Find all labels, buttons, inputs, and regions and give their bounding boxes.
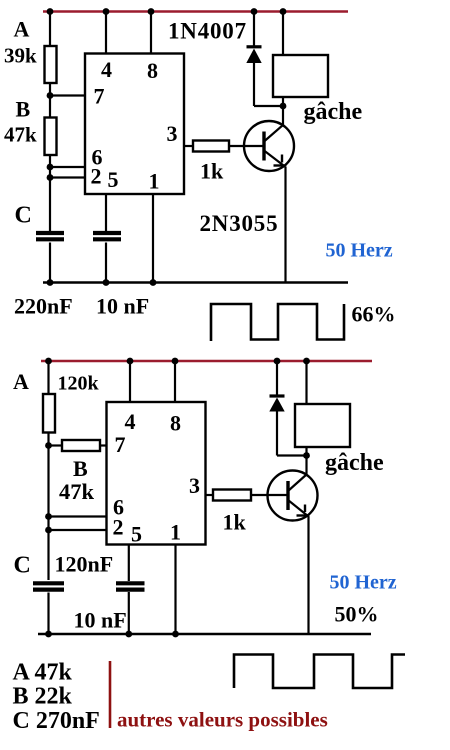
ground node at C4 (125, 631, 132, 638)
ground node at C2 (103, 279, 110, 286)
svg-text:B: B (73, 456, 88, 481)
svg-text:5: 5 (108, 167, 119, 192)
wire emitter to ground rail (284, 167, 286, 283)
svg-text:gâche: gâche (325, 450, 384, 476)
transistor Q1 2N3055 (244, 121, 294, 171)
wire node to pin 6 (49, 515, 108, 517)
ground rail circuit 2 (38, 633, 371, 635)
wire rail to relay K1 (282, 12, 284, 56)
svg-text:10 nF: 10 nF (74, 608, 127, 633)
node pin7 junction (47, 92, 54, 99)
svg-text:120k: 120k (58, 373, 100, 395)
svg-text:3: 3 (167, 121, 178, 146)
wire node to R-B2 (49, 444, 63, 446)
svg-text:1N4007: 1N4007 (168, 19, 247, 44)
svg-text:50 Herz: 50 Herz (326, 240, 393, 262)
wire node to pin 2 (50, 176, 86, 178)
relay K1 (gache) box (273, 55, 328, 97)
svg-text:50%: 50% (335, 602, 379, 627)
junction node on +V rail at relay (280, 8, 287, 15)
wire C2 to ground rail (105, 243, 107, 283)
svg-text:47k: 47k (59, 479, 95, 504)
wire C3 to ground rail 2 (47, 593, 49, 635)
ground rail circuit 1 (43, 281, 348, 283)
svg-text:C: C (14, 553, 31, 579)
transistor Q2 (268, 471, 318, 521)
wire node to pin 6 (50, 166, 86, 168)
resistor R1 1k (193, 141, 229, 152)
svg-text:120nF: 120nF (55, 552, 114, 577)
wire pin 1 to ground rail 2 (174, 545, 176, 635)
svg-text:C 270nF: C 270nF (13, 708, 100, 734)
resistor R-A2 120k (43, 394, 55, 433)
node collector junction 2 (303, 452, 310, 459)
wire C1 to ground rail (49, 243, 51, 283)
svg-text:5: 5 (131, 522, 142, 547)
svg-text:4: 4 (125, 409, 136, 434)
node R-B2 junction (45, 442, 52, 449)
junction node rail2 at relay (303, 358, 310, 365)
svg-text:C: C (15, 203, 32, 229)
wire pin 5 to capacitor C2 (105, 194, 107, 231)
node collector junction (280, 103, 287, 110)
svg-text:B: B (16, 97, 31, 122)
ground node at C3 (45, 631, 52, 638)
svg-text:7: 7 (115, 432, 126, 457)
diode D1 1N4007 (246, 12, 283, 107)
svg-text:1: 1 (149, 169, 160, 194)
junction node on +V rail at diode D1 (251, 8, 258, 15)
wire rail to pin 8 (150, 12, 152, 55)
junction node rail2 at pin 4 (127, 358, 134, 365)
+V rail (red) circuit 1 (43, 10, 348, 12)
waveform 50% duty square wave (234, 655, 405, 689)
wire relay2 to collector (305, 447, 307, 476)
resistor R2 1k (213, 490, 251, 501)
ground node at pin1 2 (172, 631, 179, 638)
wire rail2 to resistor R-A2 (47, 361, 49, 394)
svg-text:A: A (14, 17, 30, 42)
relay K2 (gache) box (295, 404, 350, 447)
+V rail (red) circuit 2 (41, 360, 372, 362)
svg-text:2: 2 (91, 164, 102, 189)
IC U2 555 body (107, 402, 206, 545)
svg-text:7: 7 (94, 84, 105, 109)
separator line (dark red) (109, 661, 112, 728)
wire R1 to transistor base (229, 145, 264, 147)
wire rail2 to pin 8 (174, 361, 176, 402)
junction node on +V rail at pin 8 (148, 8, 155, 15)
waveform 66% duty square wave (211, 304, 344, 341)
wire pin 3 to R2 1k (206, 494, 214, 496)
wire pin 3 to R1k (184, 145, 193, 147)
wire R-A2 down left column (47, 433, 49, 581)
svg-text:gâche: gâche (304, 99, 363, 125)
wire rail2 to relay K2 (305, 361, 307, 404)
svg-text:66%: 66% (352, 302, 396, 327)
node pin6 junction (47, 164, 54, 171)
wire R-B1 to capacitor C1 (49, 155, 51, 231)
svg-text:10 nF: 10 nF (96, 294, 149, 319)
resistor R-B1 47k (45, 118, 57, 156)
node pin6 junction 2 (45, 513, 52, 520)
svg-text:39k: 39k (4, 44, 37, 68)
svg-text:1: 1 (170, 520, 181, 545)
wire C4 to ground rail 2 (128, 592, 130, 634)
wire emitter2 to ground rail 2 (307, 517, 309, 635)
wire R-B2 to pin 7 (100, 444, 107, 446)
wire R-A1 to R-B1 (49, 83, 51, 118)
diode D2 (269, 361, 306, 456)
wire rail2 to pin 4 (129, 361, 131, 402)
svg-text:autres valeurs possibles: autres valeurs possibles (117, 708, 328, 732)
junction node rail2 at diode D2 (274, 358, 281, 365)
wire pin 1 to ground rail (152, 194, 154, 283)
svg-text:220nF: 220nF (14, 294, 73, 319)
svg-text:A 47k: A 47k (13, 660, 73, 686)
junction node rail2 at resistor A (45, 358, 52, 365)
junction node on +V rail at pin 4 (103, 8, 110, 15)
junction node on +V rail at resistor A (47, 8, 54, 15)
junction node rail2 at pin 8 (172, 358, 179, 365)
svg-text:1k: 1k (200, 159, 224, 184)
wire relay to collector (282, 97, 284, 126)
wire R2 to transistor base 2 (251, 494, 288, 496)
svg-text:3: 3 (189, 473, 200, 498)
ground node at C1 (47, 279, 54, 286)
capacitor C4 10nF plates (116, 583, 145, 589)
ground node at pin1 (150, 279, 157, 286)
capacitor C1 220nF plates (36, 233, 64, 239)
svg-text:1k: 1k (223, 510, 247, 535)
svg-text:2N3055: 2N3055 (200, 211, 279, 236)
capacitor C2 10nF plates (93, 233, 121, 239)
svg-text:50 Herz: 50 Herz (330, 572, 397, 594)
svg-text:B 22k: B 22k (13, 684, 73, 710)
resistor R-A1 39k (45, 46, 57, 83)
svg-text:2: 2 (113, 515, 124, 540)
wire pin 5 to capacitor C4 (128, 545, 130, 582)
wire node to pin 7 (50, 94, 86, 96)
svg-text:A: A (13, 369, 29, 394)
wire node to pin 2 (49, 529, 108, 531)
svg-text:8: 8 (147, 58, 158, 83)
svg-text:8: 8 (170, 411, 181, 436)
wire rail to resistor R-A1 (49, 12, 51, 47)
resistor R-B2 47k horizontal (62, 440, 100, 451)
IC U1 555 body (85, 54, 184, 195)
svg-text:47k: 47k (4, 123, 37, 147)
node pin2 junction 2 (45, 527, 52, 534)
wire rail to pin 4 (105, 12, 107, 55)
svg-text:4: 4 (101, 57, 112, 82)
node pin2 junction (47, 174, 54, 181)
capacitor C3 120nF plates (33, 583, 64, 589)
